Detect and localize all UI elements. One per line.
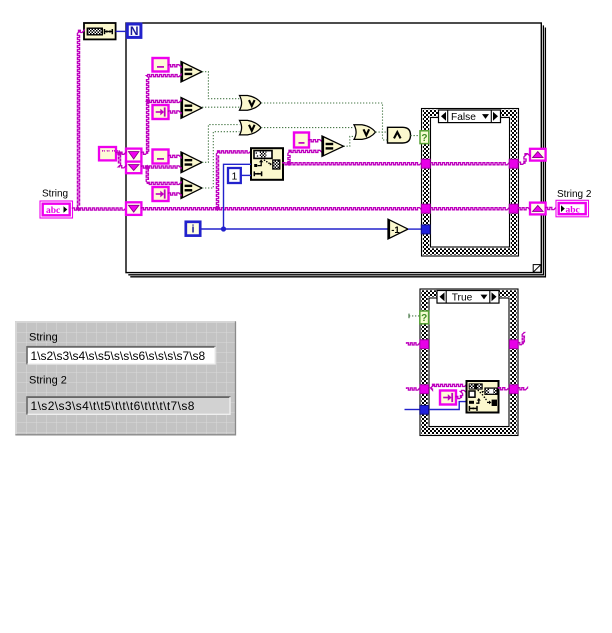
svg-text:1: 1 [231, 171, 237, 183]
tunnel left top [421, 159, 430, 168]
wire tab2 to cmp4 [169, 193, 182, 195]
tab constant 2 [153, 187, 169, 201]
tunnel right bottom [509, 204, 518, 213]
numeric constant 1 [228, 168, 241, 183]
svg-text:?: ? [421, 313, 427, 324]
junction on subset output [287, 161, 292, 166]
tab constant 3 [440, 391, 456, 405]
wire or1 to and [261, 103, 388, 140]
wire cmp5 to or3 [344, 136, 355, 146]
junction at String control [76, 207, 81, 212]
String Subset function [251, 148, 283, 180]
svg-text:String: String [42, 189, 68, 200]
for-loop border [126, 23, 545, 277]
wire stub left mid [407, 388, 420, 390]
wire branch to cmp4 top [146, 167, 181, 185]
case False wire top [430, 163, 509, 165]
wire to String 2 indicator [546, 207, 556, 209]
shift register right bottom [530, 203, 546, 215]
case True selector terminal [420, 311, 429, 324]
svg-text:1\s2\s3\s4\t\t5\t\t\t6\t\t\t\t: 1\s2\s3\s4\t\t5\t\t\t6\t\t\t\t7\s8 [31, 399, 195, 413]
wire up to String Length [77, 30, 84, 207]
svg-text:N: N [130, 24, 139, 38]
tunnel True right top [509, 340, 518, 349]
space constant 2 [153, 150, 169, 164]
case structure True [420, 289, 518, 436]
wire constant to shift registers [116, 152, 126, 154]
svg-text:i: i [191, 224, 194, 236]
tunnel left bottom [421, 204, 430, 213]
svg-text:-1: -1 [391, 225, 400, 236]
i iteration terminal [186, 222, 200, 236]
wire space3 to cmp5 [309, 140, 322, 142]
String 2 indicator [556, 200, 589, 217]
case selector terminal [420, 131, 429, 144]
or gate 1 [240, 96, 262, 111]
wire or3 to and [376, 131, 388, 133]
svg-text:String 2: String 2 [29, 374, 67, 386]
String control [40, 201, 73, 218]
shift register right top [530, 149, 546, 161]
svg-text:?: ? [421, 133, 427, 144]
junction at empty string constant [117, 151, 122, 156]
wire branch to cmp5 [288, 150, 322, 163]
wire cmp3 to or2 [202, 125, 240, 163]
empty string constant [99, 147, 121, 160]
shift register left second [126, 162, 141, 174]
wire i to decrement [201, 228, 388, 230]
wire space2 to cmp3 [169, 155, 182, 157]
wire stub selector [409, 315, 420, 317]
and gate [388, 127, 411, 143]
wire shift reg 3 to case tunnel [141, 208, 421, 210]
equal comparator 1 [181, 62, 202, 83]
decrement node [388, 219, 408, 239]
junction on string wire [215, 206, 220, 211]
tunnel right top [509, 159, 518, 168]
wire space1 to cmp1 [169, 65, 182, 67]
wire branch to cmp2 top [148, 100, 181, 102]
wire subset output to case [283, 163, 422, 165]
wire replace to tunnel [499, 388, 510, 390]
case True wire to replace [429, 384, 467, 390]
svg-text:String 2: String 2 [557, 189, 592, 200]
or gate 2 [240, 120, 262, 134]
wire const1 to subset [241, 174, 251, 176]
String Length function [84, 23, 116, 39]
wire stub left top [407, 343, 420, 345]
wire String control to loop [73, 208, 127, 210]
tunnel iteration blue [421, 225, 430, 234]
svg-text:String: String [29, 332, 58, 344]
panel String 2 field [27, 397, 230, 415]
wire cmp1 to or1 [202, 72, 240, 99]
equal comparator 3 [181, 152, 202, 173]
svg-text:True: True [452, 293, 473, 304]
junction on shift reg 2 wire [145, 165, 150, 170]
wire branch to second shift register [118, 153, 126, 168]
wire stub right top [518, 333, 524, 345]
wire or2 to or3 [261, 127, 354, 129]
wire tab3 to replace [456, 390, 467, 398]
front panel background [15, 321, 236, 435]
equal comparator 2 [181, 98, 202, 119]
svg-text:abc: abc [46, 206, 60, 216]
wire string-length to N [116, 30, 126, 32]
Replace Substring function [467, 381, 499, 413]
N count terminal [127, 24, 141, 38]
junction on shift reg 1 wire [145, 99, 150, 104]
wire case to shift reg right bottom [518, 208, 530, 210]
wire tab1 to cmp2 [169, 111, 182, 113]
wire stub left blue [405, 409, 420, 411]
tab constant 1 [153, 105, 169, 119]
equal comparator 4 [181, 178, 202, 199]
junction on i wire [221, 226, 226, 231]
svg-text:abc: abc [566, 205, 580, 215]
space constant 3 [294, 133, 309, 148]
wire i to subset offset [224, 164, 252, 229]
case structure False [422, 109, 519, 257]
equal comparator 5 [322, 136, 344, 156]
tunnel True left top [420, 340, 429, 349]
tunnel True blue [420, 405, 429, 414]
wire decrement to case [408, 228, 421, 230]
tunnel True right mid [509, 385, 518, 394]
wire shift reg 2 output [141, 166, 181, 168]
tunnel True left mid [420, 385, 429, 394]
wire stub right mid [518, 388, 528, 390]
svg-text:1\s2\s3\s4\s\s5\s\s\s6\s\s\s\s: 1\s2\s3\s4\s\s5\s\s\s6\s\s\s\s7\s8 [31, 349, 206, 363]
wire and to selector [411, 135, 421, 137]
wire branch up to string subset [216, 151, 251, 209]
case False wire bottom [430, 208, 509, 210]
panel String field [27, 346, 215, 364]
shift register left bottom [126, 202, 141, 215]
wire cmp2 to or1 [202, 106, 240, 108]
space constant 1 [153, 58, 169, 72]
or gate 3 [354, 125, 376, 140]
wire case to shift reg right top [518, 154, 530, 165]
wire shift reg 1 output [141, 75, 181, 155]
wire cmp4 to or2 [202, 132, 240, 188]
shift register left top [126, 149, 141, 162]
wire blue to replace [429, 402, 467, 410]
svg-text:False: False [451, 112, 476, 123]
